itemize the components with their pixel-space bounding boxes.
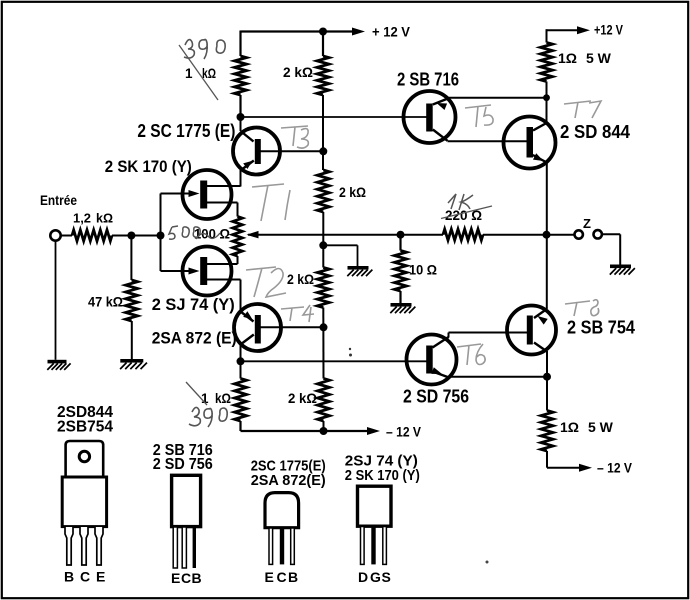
svg-text:1Ω: 1Ω — [558, 50, 577, 66]
svg-text:2 SB 754: 2 SB 754 — [567, 317, 636, 338]
svg-text:2 SJ 74 (Y): 2 SJ 74 (Y) — [152, 295, 235, 314]
svg-text:kΩ: kΩ — [96, 211, 113, 226]
svg-text:S: S — [382, 569, 391, 585]
svg-text:2 kΩ: 2 kΩ — [283, 65, 313, 80]
svg-text:C: C — [80, 569, 90, 585]
svg-text:10 Ω: 10 Ω — [409, 263, 437, 278]
svg-text:kΩ: kΩ — [202, 66, 216, 81]
svg-text:47 kΩ: 47 kΩ — [88, 295, 123, 310]
svg-text:2 kΩ: 2 kΩ — [287, 272, 314, 287]
svg-text:2 SK 170 (Y): 2 SK 170 (Y) — [105, 157, 192, 176]
svg-text:2 SB 716: 2 SB 716 — [397, 69, 459, 90]
svg-text:B: B — [192, 570, 202, 586]
svg-text:kΩ: kΩ — [215, 391, 231, 406]
svg-text:1Ω: 1Ω — [560, 419, 579, 435]
svg-text:E: E — [265, 569, 274, 585]
svg-text:1,2: 1,2 — [73, 211, 91, 226]
svg-text:2 kΩ: 2 kΩ — [288, 391, 317, 406]
svg-text:2SA 872 (E): 2SA 872 (E) — [152, 329, 237, 348]
svg-text:+ 12 V: + 12 V — [372, 24, 411, 40]
svg-text:2 SD 844: 2 SD 844 — [560, 121, 631, 142]
svg-text:+12 V: +12 V — [594, 21, 624, 37]
svg-text:B: B — [288, 569, 298, 585]
svg-text:2 SK 170 (Y): 2 SK 170 (Y) — [345, 467, 420, 484]
svg-text:Entrée: Entrée — [40, 193, 77, 208]
svg-text:E: E — [96, 569, 105, 585]
svg-text:2SA 872(E): 2SA 872(E) — [251, 472, 326, 489]
svg-text:B: B — [64, 569, 74, 585]
svg-text:2SB754: 2SB754 — [57, 419, 113, 436]
svg-text:5 W: 5 W — [588, 419, 614, 435]
svg-text:– 12 V: – 12 V — [597, 460, 633, 476]
svg-text:C: C — [277, 569, 287, 585]
svg-text:2 SD 756: 2 SD 756 — [403, 386, 469, 407]
svg-text:Z: Z — [583, 216, 591, 231]
svg-text:– 12 V: – 12 V — [386, 424, 422, 440]
svg-text:G: G — [370, 569, 381, 585]
svg-text:C: C — [181, 570, 191, 586]
svg-text:2 kΩ: 2 kΩ — [339, 185, 366, 200]
svg-text:2 SD 756: 2 SD 756 — [153, 456, 213, 473]
svg-text:D: D — [358, 569, 368, 585]
svg-text:2 SC 1775 (E): 2 SC 1775 (E) — [137, 121, 235, 141]
svg-text:5 W: 5 W — [586, 50, 612, 66]
svg-text:1: 1 — [185, 66, 193, 81]
svg-text:E: E — [171, 570, 180, 586]
